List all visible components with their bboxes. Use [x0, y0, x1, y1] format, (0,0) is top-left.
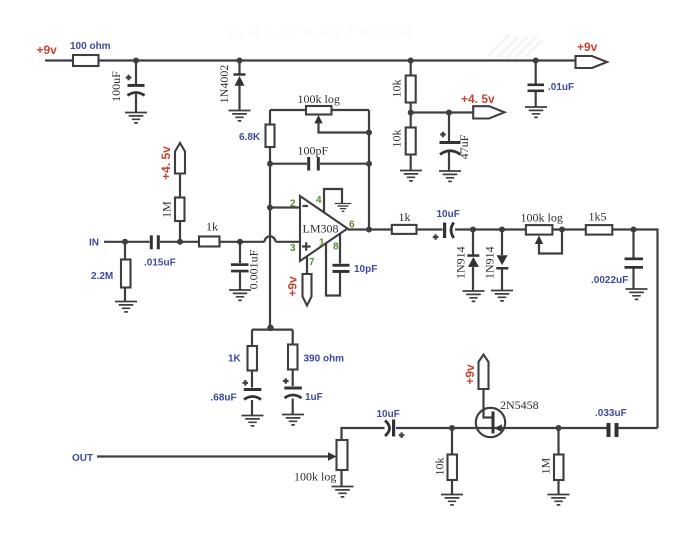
svg-text:6: 6 — [349, 220, 355, 231]
svg-text:100k log: 100k log — [294, 470, 336, 484]
svg-text:+9v: +9v — [37, 43, 58, 57]
svg-text:1k: 1k — [206, 220, 218, 234]
svg-text:1k5: 1k5 — [589, 210, 607, 224]
svg-text:6.8K: 6.8K — [239, 132, 261, 143]
svg-text:3: 3 — [290, 243, 296, 254]
svg-text:2: 2 — [290, 199, 296, 210]
svg-text:+4. 5v: +4. 5v — [461, 92, 495, 106]
svg-text:100k log: 100k log — [298, 92, 340, 106]
svg-text:10k: 10k — [390, 130, 404, 148]
svg-text:OUT: OUT — [72, 453, 93, 464]
svg-text:10k: 10k — [433, 458, 447, 476]
svg-text:390 ohm: 390 ohm — [304, 354, 345, 365]
svg-text:1M: 1M — [539, 457, 553, 474]
svg-text:1k: 1k — [399, 210, 411, 224]
svg-text:47uF: 47uF — [457, 134, 471, 159]
svg-text:100 ohm: 100 ohm — [70, 41, 111, 52]
svg-text:7: 7 — [309, 257, 315, 268]
svg-text:1: 1 — [319, 238, 325, 249]
svg-text:+9v: +9v — [463, 364, 477, 385]
svg-text:100k log: 100k log — [521, 211, 563, 225]
svg-text:100pF: 100pF — [298, 144, 329, 158]
svg-text:.68uF: .68uF — [211, 393, 237, 404]
svg-text:.015uF: .015uF — [144, 258, 176, 269]
svg-text:4: 4 — [316, 195, 322, 206]
svg-text:.033uF: .033uF — [595, 408, 627, 419]
svg-text:IN: IN — [89, 238, 99, 249]
svg-text:.0022uF: .0022uF — [591, 275, 628, 286]
svg-text:1K: 1K — [228, 354, 242, 365]
svg-text:8: 8 — [333, 242, 339, 253]
svg-text:.01uF: .01uF — [548, 82, 574, 93]
svg-text:1N914: 1N914 — [454, 246, 468, 279]
svg-text:10uF: 10uF — [377, 409, 400, 420]
svg-text:1N4002: 1N4002 — [217, 65, 231, 104]
svg-text:0.001uF: 0.001uF — [247, 249, 261, 289]
svg-text:na M L urr*m mG 2 PLxxm4: na M L urr*m mG 2 PLxxm4 — [228, 26, 412, 40]
svg-text:10uF: 10uF — [437, 209, 460, 220]
svg-text:1N914: 1N914 — [483, 246, 497, 279]
svg-text:+9v: +9v — [577, 40, 598, 54]
svg-text:100uF: 100uF — [109, 71, 123, 102]
svg-text:10pF: 10pF — [354, 264, 377, 275]
svg-text:LM308: LM308 — [303, 222, 339, 236]
svg-text:10k: 10k — [390, 80, 404, 98]
svg-text:+9v: +9v — [286, 276, 300, 297]
svg-text:1M: 1M — [160, 201, 174, 218]
svg-text:+4. 5v: +4. 5v — [159, 146, 173, 180]
svg-text:1uF: 1uF — [305, 392, 323, 403]
svg-text:2.2M: 2.2M — [91, 271, 113, 282]
svg-text:2N5458: 2N5458 — [500, 398, 539, 412]
